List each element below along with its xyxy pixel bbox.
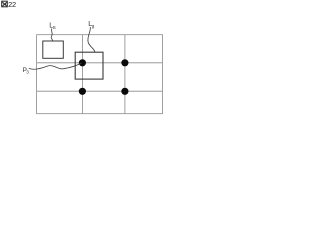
grid inner horizontal line y=62.8 — [37, 62, 163, 64]
svg-text:S: S — [53, 25, 56, 30]
label Ls — [49, 23, 55, 30]
node dot 3 — [79, 88, 86, 95]
leader from Ls to small box — [51, 29, 53, 42]
node dot 4 — [121, 88, 128, 95]
node dot 1 — [79, 59, 86, 66]
leader from Lg to big square — [88, 27, 95, 52]
leader from P3 to node dot 1 — [29, 63, 82, 69]
svg-text:g: g — [92, 24, 95, 29]
small box Ls — [43, 41, 64, 58]
big square around node — [75, 52, 103, 79]
node dot 2 — [121, 59, 128, 66]
label P3 — [23, 67, 30, 74]
grid outer rectangle — [37, 35, 163, 114]
label Lg — [88, 21, 94, 28]
grid inner horizontal line y=91.2 — [37, 90, 163, 92]
svg-text:22: 22 — [8, 0, 16, 9]
grid inner vertical line x=82.4 — [81, 35, 83, 114]
grid inner vertical line x=124.9 — [124, 35, 126, 114]
figure caption 図22 — [2, 0, 16, 9]
